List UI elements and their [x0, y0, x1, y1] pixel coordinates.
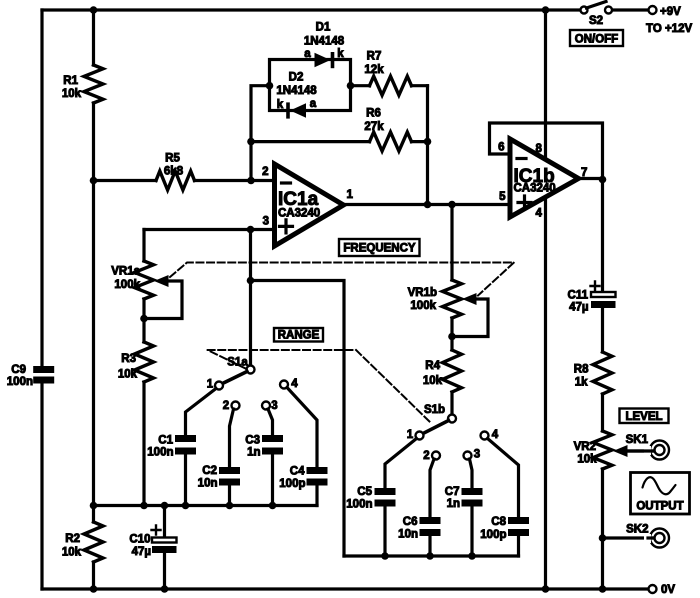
svg-text:SK2: SK2	[626, 524, 648, 536]
op-amp U2 IC1b	[510, 139, 579, 217]
svg-text:VR1a: VR1a	[111, 266, 140, 278]
capacitor C7	[462, 488, 483, 495]
svg-text:0V: 0V	[661, 584, 675, 596]
wire C5-C8 bus	[344, 554, 519, 557]
wire IC1b output	[579, 177, 603, 180]
svg-text:100n: 100n	[7, 376, 33, 388]
svg-text:C8: C8	[491, 516, 506, 528]
svg-text:C7: C7	[445, 486, 460, 498]
svg-text:k: k	[277, 99, 284, 111]
wire top rail +V	[42, 8, 649, 11]
switch S1a contact 4	[280, 381, 288, 389]
capacitor C5	[375, 488, 396, 495]
resistor R6 27k	[370, 132, 412, 151]
wire R1/R2 vertical rail	[92, 10, 95, 589]
label box RANGE	[274, 328, 323, 342]
connector SK1	[650, 441, 669, 460]
wire left rail (C9 branch)	[40, 10, 43, 589]
svg-text:FREQUENCY: FREQUENCY	[343, 243, 416, 255]
svg-text:10k: 10k	[118, 369, 138, 381]
svg-text:LEVEL: LEVEL	[625, 411, 662, 423]
svg-text:3: 3	[474, 449, 480, 461]
svg-text:1N4148: 1N4148	[276, 85, 317, 97]
label box OUTPUT with sine	[631, 473, 690, 515]
svg-text:2: 2	[223, 400, 229, 412]
svg-text:C9: C9	[11, 364, 26, 376]
capacitor C3	[262, 435, 283, 442]
switch S1a pole	[247, 366, 255, 374]
diode D1	[315, 53, 331, 68]
svg-text:ON/OFF: ON/OFF	[575, 34, 618, 46]
svg-text:4: 4	[536, 208, 543, 220]
connector SK2	[603, 536, 657, 539]
svg-text:C6: C6	[403, 516, 418, 528]
svg-text:10k: 10k	[62, 88, 82, 100]
svg-text:VR2: VR2	[574, 441, 596, 453]
capacitor C1	[175, 435, 196, 442]
svg-text:VR1b: VR1b	[408, 287, 437, 299]
wire D-network left drop	[251, 86, 270, 181]
svg-text:a: a	[310, 98, 317, 110]
capacitor C2	[219, 467, 240, 474]
svg-text:CA3240: CA3240	[514, 183, 556, 195]
svg-text:10k: 10k	[62, 547, 82, 559]
svg-text:D2: D2	[289, 72, 304, 84]
svg-text:1k: 1k	[575, 377, 588, 389]
svg-text:D1: D1	[316, 22, 331, 34]
wire pin2 line with R5	[94, 179, 275, 182]
switch S1b contact 3	[464, 452, 472, 460]
switch S2	[581, 7, 588, 14]
svg-text:C3: C3	[245, 435, 260, 447]
svg-text:a: a	[304, 48, 311, 60]
svg-text:6: 6	[498, 142, 504, 154]
switch S1a contact 3	[262, 402, 270, 410]
svg-text:4: 4	[492, 429, 499, 441]
wire pin3 line	[144, 228, 275, 231]
resistor R5 6k8	[156, 171, 195, 190]
potentiometer VR1a 100k	[142, 230, 145, 343]
diode box D1/D2 loop	[270, 60, 351, 111]
wire IC1b feedback loop pin6-pin7	[490, 123, 603, 180]
dashed gang line VR1a-VR1b	[170, 263, 514, 296]
svg-text:C11: C11	[568, 290, 589, 302]
svg-text:1: 1	[347, 189, 354, 201]
svg-text:27k: 27k	[364, 121, 384, 133]
potentiometer VR2 10k	[593, 431, 612, 469]
svg-text:1n: 1n	[447, 498, 460, 510]
label box ON/OFF	[570, 30, 623, 46]
svg-text:47µ: 47µ	[569, 302, 588, 314]
svg-text:TO +12V: TO +12V	[646, 23, 692, 35]
svg-text:10k: 10k	[577, 454, 597, 466]
switch S1a contact 1	[215, 382, 223, 390]
svg-text:R3: R3	[121, 353, 136, 365]
svg-text:6k8: 6k8	[164, 166, 184, 178]
op-amp U1 IC1a	[275, 164, 344, 246]
svg-text:R7: R7	[367, 51, 382, 63]
svg-text:10n: 10n	[198, 478, 218, 490]
switch S1b contact 4	[481, 432, 489, 440]
wire R7 row	[351, 84, 428, 87]
terminal +9V	[649, 6, 657, 14]
svg-text:3: 3	[263, 216, 269, 228]
wire R6 row	[251, 140, 428, 143]
resistor R1	[84, 65, 103, 103]
svg-text:100p: 100p	[279, 478, 305, 490]
svg-text:100p: 100p	[480, 529, 506, 541]
svg-text:C1: C1	[158, 435, 173, 447]
svg-text:100n: 100n	[147, 447, 173, 459]
svg-text:3: 3	[271, 400, 277, 412]
svg-text:R4: R4	[425, 360, 440, 372]
resistor R3	[135, 342, 154, 382]
diode D2	[290, 103, 306, 118]
svg-text:k: k	[337, 48, 344, 60]
capacitor C8	[508, 517, 529, 524]
svg-text:1N4148: 1N4148	[304, 36, 345, 48]
label box FREQUENCY	[339, 239, 420, 256]
svg-text:10n: 10n	[398, 529, 418, 541]
capacitor C11 47u electrolytic	[591, 292, 616, 297]
svg-text:4: 4	[291, 378, 298, 390]
svg-text:R2: R2	[65, 533, 80, 545]
svg-text:C5: C5	[357, 486, 372, 498]
svg-text:R6: R6	[366, 108, 381, 120]
wire R7/R6 right drop to output node	[426, 86, 429, 205]
switch S1a contact 2	[232, 402, 240, 410]
svg-text:OUTPUT: OUTPUT	[636, 501, 683, 513]
svg-text:47µ: 47µ	[132, 546, 151, 558]
svg-text:R5: R5	[165, 153, 180, 165]
svg-text:1: 1	[407, 429, 414, 441]
svg-text:8: 8	[536, 143, 543, 155]
svg-text:1: 1	[207, 379, 214, 391]
svg-text:C4: C4	[290, 466, 305, 478]
svg-text:S1a: S1a	[227, 357, 248, 369]
capacitor C6	[420, 517, 441, 524]
resistor R4 10k	[443, 350, 462, 392]
svg-text:S1b: S1b	[424, 404, 445, 416]
svg-text:1n: 1n	[247, 447, 260, 459]
wire +V vertical rail through IC1b	[544, 10, 547, 589]
svg-text:+9V: +9V	[660, 6, 681, 18]
svg-text:C10: C10	[129, 534, 150, 546]
dashed gang line S1a-S1b	[208, 350, 432, 423]
svg-text:R1: R1	[63, 75, 78, 87]
wire pin3 node to C5-C8 bus	[251, 281, 345, 557]
svg-text:5: 5	[499, 191, 506, 203]
resistor R8 1k	[593, 352, 612, 394]
svg-text:100n: 100n	[346, 499, 372, 511]
wire IC1a output to IC1b pin5	[344, 203, 511, 206]
wire C1-C4 ground bus	[94, 504, 318, 507]
capacitor C4	[307, 467, 328, 474]
svg-text:S2: S2	[589, 15, 603, 27]
svg-text:2: 2	[262, 166, 268, 178]
wire bottom rail 0V	[42, 587, 649, 590]
svg-text:CA3240: CA3240	[278, 208, 320, 220]
label box LEVEL	[620, 409, 669, 424]
svg-text:R8: R8	[574, 364, 589, 376]
switch S1b pole	[448, 415, 456, 423]
svg-text:RANGE: RANGE	[278, 330, 320, 342]
svg-text:100k: 100k	[410, 300, 436, 312]
wire S1a pole drop	[249, 230, 252, 366]
potentiometer VR1b 100k	[450, 205, 453, 351]
capacitor C9	[33, 366, 54, 373]
switch S1b contact 1	[416, 432, 424, 440]
svg-text:C2: C2	[202, 465, 217, 477]
svg-text:2: 2	[423, 450, 429, 462]
resistor R7 12k	[370, 76, 412, 95]
resistor R2	[84, 522, 103, 562]
svg-text:SK1: SK1	[626, 434, 649, 446]
svg-text:100k: 100k	[114, 279, 140, 291]
svg-text:12k: 12k	[364, 64, 384, 76]
switch S1b contact 2	[432, 452, 440, 460]
svg-text:10k: 10k	[423, 375, 443, 387]
terminal 0V	[649, 585, 657, 593]
capacitor C10 47u electrolytic	[163, 506, 166, 590]
